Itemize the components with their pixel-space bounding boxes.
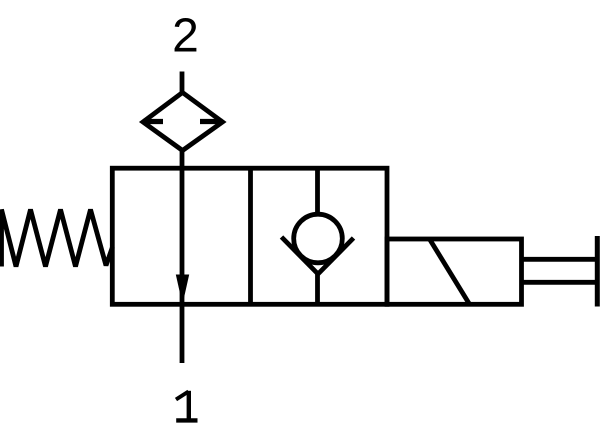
flow path arrow line (left cell) bbox=[180, 168, 185, 304]
check valve stem (top) bbox=[315, 168, 320, 216]
check valve stem (bottom) bbox=[315, 271, 320, 304]
valve body outline bbox=[112, 168, 387, 304]
actuator rod lower line bbox=[522, 280, 596, 285]
solenoid diagonal bbox=[430, 239, 470, 304]
wire: port 1 below valve body bbox=[180, 304, 185, 363]
wire: diamond to valve body bbox=[180, 148, 185, 170]
wire: port 2 stub above diamond bbox=[180, 72, 185, 96]
check valve ball bbox=[294, 214, 343, 263]
actuator end bar bbox=[595, 236, 600, 307]
port label 1 (base bar) bbox=[176, 418, 197, 422]
check valve seat left arm bbox=[282, 237, 319, 274]
diamond right inner tick bbox=[200, 119, 223, 124]
diamond left inner tick bbox=[143, 119, 163, 124]
solenoid box bbox=[387, 239, 522, 304]
return spring (left) bbox=[2, 210, 113, 267]
check valve seat right arm bbox=[318, 238, 354, 274]
diamond flow element at port 2 bbox=[143, 93, 223, 151]
port label 1 (flag) bbox=[176, 392, 189, 400]
port label 1 (stem) bbox=[187, 391, 191, 420]
valve body divider bbox=[248, 168, 253, 304]
svg-text:2: 2 bbox=[172, 10, 199, 63]
actuator rod upper line bbox=[522, 257, 596, 262]
flow path arrowhead bbox=[176, 275, 189, 305]
